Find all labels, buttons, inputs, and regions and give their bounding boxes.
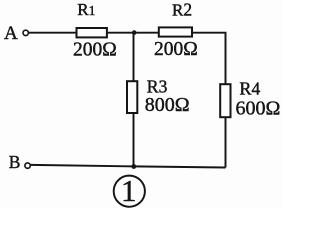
- svg-text:B: B: [9, 152, 21, 172]
- junction bottom middle: [131, 164, 136, 169]
- resistor R2: [159, 27, 192, 36]
- resistor R1: [77, 28, 107, 37]
- svg-text:2: 2: [183, 0, 192, 20]
- svg-text:R: R: [239, 78, 251, 98]
- wire R4 bottom to bottom wire: [225, 117, 227, 167]
- svg-text:R: R: [172, 1, 184, 20]
- svg-text:A: A: [4, 23, 18, 44]
- svg-text:800Ω: 800Ω: [145, 94, 190, 116]
- resistor R3: [127, 81, 137, 113]
- bottom wire B to right corner: [31, 165, 226, 168]
- svg-text:1: 1: [89, 3, 96, 18]
- svg-text:200Ω: 200Ω: [73, 40, 117, 61]
- wire R2 to right corner: [192, 33, 226, 84]
- wire top middle down to R3: [133, 33, 135, 81]
- svg-text:600Ω: 600Ω: [236, 98, 281, 120]
- wire A to R1: [29, 32, 77, 34]
- svg-text:4: 4: [252, 78, 261, 98]
- svg-text:1: 1: [121, 173, 137, 208]
- svg-text:200Ω: 200Ω: [154, 39, 198, 60]
- terminal A: [23, 30, 28, 35]
- svg-text:R: R: [77, 0, 89, 19]
- figure number circle 1: [114, 176, 145, 207]
- wire R1 to R2: [106, 32, 158, 34]
- resistor R4: [220, 84, 230, 117]
- wire R3 bottom to bottom wire: [133, 113, 135, 166]
- terminal B: [25, 163, 30, 168]
- junction top middle: [132, 30, 137, 35]
